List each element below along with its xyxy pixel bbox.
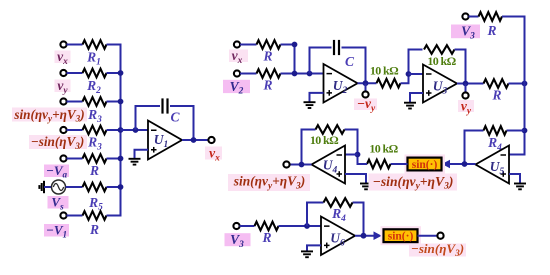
wire <box>107 101 121 103</box>
svg-text:sin(·): sin(·) <box>412 159 438 171</box>
junction <box>292 71 298 77</box>
ground U5 <box>514 183 526 185</box>
wire R4 feedback (U5) <box>507 130 525 132</box>
resistor R3 <box>83 97 107 106</box>
resistor R2 <box>83 69 107 78</box>
wire <box>455 50 466 84</box>
arrow into sin block 1 <box>442 160 450 169</box>
junction <box>307 71 313 77</box>
node vy input (left) <box>55 80 71 93</box>
node vx input (left) <box>55 51 71 64</box>
wire U1 inverting input <box>121 129 149 131</box>
junction <box>118 70 124 76</box>
wire <box>509 83 525 85</box>
svg-text:R: R <box>262 49 272 64</box>
resistor R (U6 in) <box>255 222 279 231</box>
wire U4 output <box>290 164 312 166</box>
wire U4 + input <box>345 174 366 183</box>
svg-text:C: C <box>345 54 355 69</box>
ground (source) <box>43 181 45 193</box>
wire <box>240 73 257 75</box>
op-amp U3 <box>423 65 457 103</box>
node -Va input <box>44 165 69 178</box>
wire U2 + input <box>310 93 324 102</box>
wire U2 output <box>358 82 377 84</box>
node -vy <box>365 83 367 91</box>
resistor R (V3 top) <box>479 12 503 21</box>
wire <box>281 45 295 74</box>
node sin(nvy+nV3) input <box>12 108 87 122</box>
ground U4 <box>360 183 372 185</box>
wire <box>67 44 83 46</box>
sin block 1 <box>405 155 446 174</box>
op-amp U4 <box>312 146 346 184</box>
resistor 10k (sin1 to U4) <box>367 160 391 169</box>
wire <box>107 72 121 74</box>
wire <box>107 129 121 131</box>
wire <box>66 186 83 188</box>
wire <box>240 44 257 46</box>
op-amp U1 <box>148 121 182 160</box>
ground U1 <box>129 158 141 160</box>
resistor R4 (U5) <box>484 126 507 135</box>
junction <box>406 71 412 77</box>
node -sin(nvy+nV3) <box>369 174 458 191</box>
wire C feedback left (U2) <box>310 48 332 74</box>
svg-text:R: R <box>262 78 272 93</box>
resistor 10k feedback (U3) <box>424 45 455 54</box>
wire <box>107 44 122 46</box>
wire <box>44 186 52 188</box>
wire U6 + input <box>307 245 321 251</box>
svg-text:R: R <box>89 222 99 237</box>
wire C feedback left <box>136 106 161 130</box>
resistor R1 <box>83 40 107 49</box>
junction <box>133 127 139 133</box>
node V3 input (bottom) <box>225 233 251 246</box>
wire <box>391 163 408 165</box>
resistor R (row5) <box>83 154 107 163</box>
wire U3 + input <box>410 93 423 102</box>
wire <box>67 129 83 131</box>
resistor R3b <box>83 126 107 135</box>
node -V1 input <box>44 224 69 237</box>
capacitor C (U1) <box>161 98 163 113</box>
wire <box>240 225 255 227</box>
node vx output <box>208 137 214 143</box>
svg-text:R: R <box>491 88 501 103</box>
wire U6 output <box>355 235 375 237</box>
resistor R (vx row) <box>257 40 281 49</box>
sin block 2 <box>381 226 422 245</box>
wire <box>67 215 83 217</box>
ground U3 <box>404 102 416 104</box>
op-amp U5 <box>476 146 510 184</box>
junction <box>463 81 469 87</box>
node V3 input (top) <box>451 25 480 39</box>
node -sin(nV3) output <box>437 233 443 239</box>
svg-text:10 kΩ: 10 kΩ <box>369 142 398 156</box>
wire R4 feedback (U6) <box>307 203 324 227</box>
wire <box>107 215 122 217</box>
wire <box>107 158 121 160</box>
resistor 10k feedback (U4) <box>316 125 345 134</box>
node sin(nvy+nV3) output <box>283 161 289 167</box>
resistor R (U3 out) <box>484 79 509 88</box>
wire U1 + input <box>135 150 149 159</box>
junction <box>355 152 361 158</box>
node V2 input <box>223 80 250 93</box>
wire C feedback right <box>170 106 194 140</box>
node -sin(nV3) input <box>29 135 87 149</box>
wire C feedback right (U2) <box>342 48 366 84</box>
wire U3 inverting input <box>409 73 424 75</box>
junction <box>363 80 369 86</box>
arrow into sin block 2 <box>374 231 382 240</box>
wire <box>279 225 322 227</box>
wire U3 output <box>457 83 484 85</box>
ground U6 <box>301 250 313 252</box>
wire <box>67 72 83 74</box>
svg-text:R: R <box>486 23 496 38</box>
wire <box>401 50 423 84</box>
resistor R5 <box>83 183 107 192</box>
wire <box>281 73 324 75</box>
node vy <box>465 84 467 93</box>
junction <box>118 156 124 162</box>
resistor R (V2 row) <box>257 69 281 78</box>
wire right bus <box>502 17 525 155</box>
junction <box>299 162 305 168</box>
op-amp U6 <box>321 217 355 256</box>
junction <box>292 42 298 48</box>
node vx input (right) <box>229 50 248 63</box>
svg-text:10 kΩ: 10 kΩ <box>370 64 399 78</box>
wire U1 output <box>182 139 209 141</box>
junction <box>522 128 528 134</box>
svg-text:C: C <box>170 110 180 125</box>
svg-text:10 kΩ: 10 kΩ <box>427 54 456 68</box>
wire U5 output <box>449 163 476 165</box>
svg-text:10 kΩ: 10 kΩ <box>310 133 339 147</box>
svg-text:sin(·): sin(·) <box>388 231 414 243</box>
svg-text:R: R <box>261 230 271 245</box>
wire <box>469 16 479 18</box>
ground U2 <box>304 101 316 103</box>
wire U4 inverting input <box>345 154 358 156</box>
wire 10k feedback (U4) <box>345 130 358 155</box>
op-amp U2 <box>324 64 358 103</box>
wire <box>67 101 83 103</box>
junction <box>304 223 310 229</box>
wire <box>67 158 83 160</box>
svg-text:R: R <box>89 163 99 178</box>
wire <box>358 155 368 165</box>
resistor R4 (U6) <box>324 198 353 207</box>
wire <box>418 235 438 237</box>
wire summing bus <box>120 45 122 216</box>
resistor R (row7) <box>83 211 107 220</box>
junction <box>191 137 197 143</box>
junction <box>361 233 367 239</box>
junction <box>118 99 124 105</box>
wire <box>107 186 121 188</box>
wire U5 + input <box>509 174 520 183</box>
junction <box>118 127 124 133</box>
junction <box>118 184 124 190</box>
junction <box>462 161 468 167</box>
capacitor C (U2) <box>333 40 335 55</box>
junction <box>522 81 528 87</box>
source Vs <box>52 180 66 194</box>
